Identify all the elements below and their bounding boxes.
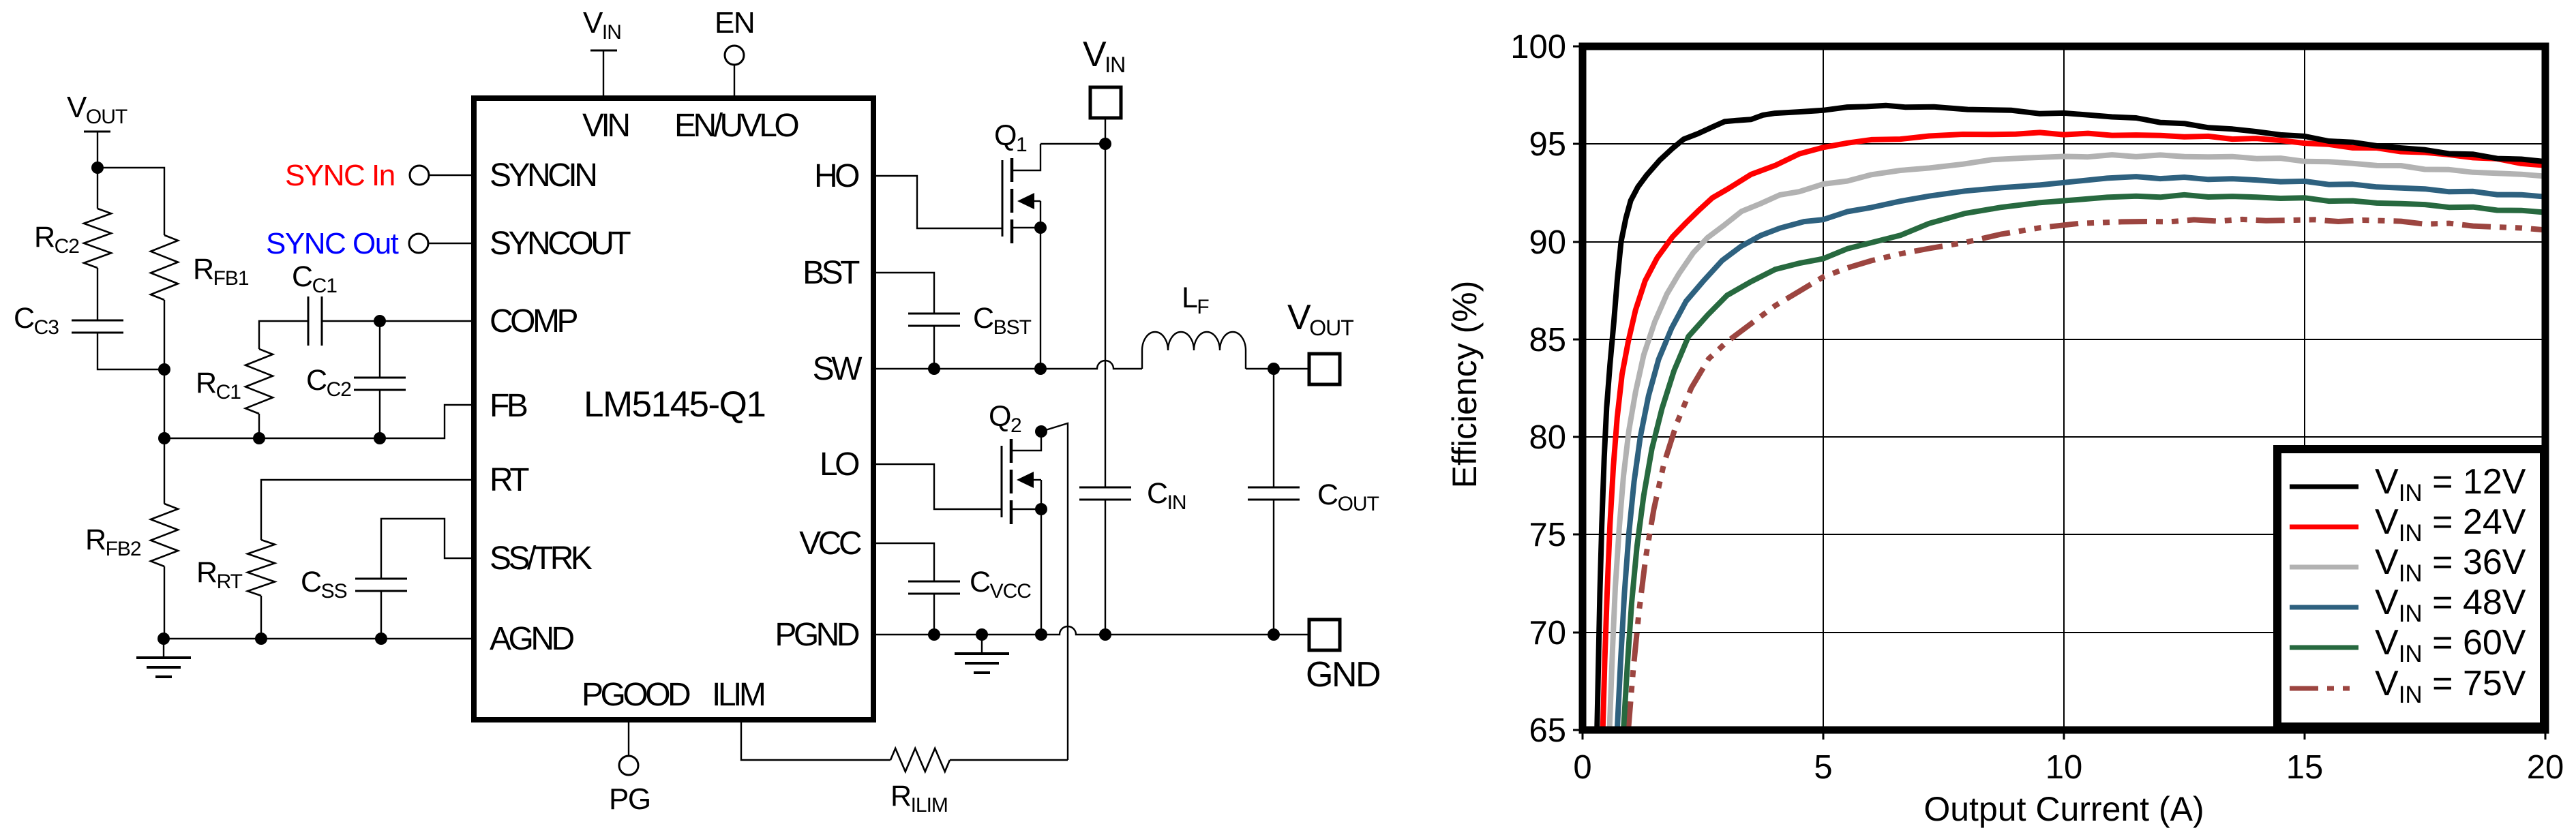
svg-text:VIN = 24V: VIN = 24V <box>2375 502 2526 547</box>
U1 pin label SYNCIN <box>490 157 595 194</box>
legend entry VIN = 12V <box>2290 462 2526 506</box>
terminal VOUT (square) <box>1287 298 1353 384</box>
junction SW at CBST <box>928 363 940 375</box>
legend entry VIN = 60V <box>2290 623 2526 667</box>
svg-text:VIN: VIN <box>582 108 628 144</box>
svg-text:RT: RT <box>490 462 529 498</box>
capacitor CC1 <box>292 260 337 346</box>
chart gridlines <box>1583 46 2545 730</box>
wire VCC pin to CVCC <box>873 543 934 581</box>
capacitor CSS <box>301 519 474 639</box>
capacitor CC2 <box>306 321 406 438</box>
resistor RFB1 <box>151 235 249 369</box>
junction SW at Q1 source <box>1034 363 1047 375</box>
svg-text:65: 65 <box>1529 712 1566 749</box>
junction RC2/RFB1 <box>158 363 170 376</box>
ground (power, below PGND row) <box>955 635 1009 673</box>
svg-text:EN/UVLO: EN/UVLO <box>674 108 798 144</box>
junction FB row at RC1 <box>253 432 265 444</box>
curve VIN=75V (dark red, dash-dot) <box>1628 219 2545 730</box>
U1 pin label SW <box>813 351 863 387</box>
curve VIN=36V (gray) <box>1610 155 2546 730</box>
svg-text:95: 95 <box>1529 126 1566 163</box>
U1 pin label SYNCOUT <box>490 226 631 262</box>
wire CC1 to COMP pin <box>322 320 474 322</box>
svg-text:VIN = 12V: VIN = 12V <box>2375 462 2526 506</box>
U1 pin label VIN <box>582 108 628 144</box>
junction FB row at RFB2 <box>158 432 170 444</box>
junction VOUT node <box>1268 363 1280 375</box>
chart y-axis title Efficiency (%) <box>1446 281 1484 489</box>
svg-text:85: 85 <box>1529 322 1566 359</box>
terminal SYNC Out (circle) <box>266 227 474 260</box>
svg-text:SYNC In: SYNC In <box>285 159 395 192</box>
legend entry VIN = 36V <box>2290 543 2526 587</box>
U1 pin label FB <box>490 388 527 424</box>
svg-text:SW: SW <box>813 351 863 387</box>
curve VIN=24V (red) <box>1603 132 2545 730</box>
svg-text:VIN = 75V: VIN = 75V <box>2375 664 2526 708</box>
junction Q1 source/body <box>1034 222 1047 234</box>
U1 pin label ILIM <box>712 677 764 713</box>
junction PGND at CIN <box>1099 628 1111 641</box>
chart axis ticks <box>1573 46 2545 740</box>
svg-text:BST: BST <box>803 255 860 291</box>
svg-text:VIN = 60V: VIN = 60V <box>2375 623 2526 667</box>
legend entry VIN = 24V <box>2290 502 2526 547</box>
U1 pin label PGOOD <box>582 677 690 713</box>
U1 pin label PGND <box>775 617 859 653</box>
capacitor CBST <box>908 302 1032 369</box>
op-amp U1 LM5145-Q1 controller box <box>474 98 873 720</box>
svg-text:FB: FB <box>490 388 527 424</box>
junction Q2 source/body <box>1035 503 1047 515</box>
terminal GND (square) <box>1306 620 1380 695</box>
wire LO pin to Q2 gate <box>873 464 1002 509</box>
U1 pin label LO <box>820 446 859 483</box>
U1 pin label COMP <box>490 303 577 339</box>
wire PGND row with hop over sense line <box>873 626 1309 635</box>
wire LF to VOUT terminal <box>1246 368 1309 369</box>
svg-text:HO: HO <box>814 158 859 194</box>
junction AGND at CSS <box>375 633 387 645</box>
resistor RRT <box>196 540 275 639</box>
svg-text:VIN = 48V: VIN = 48V <box>2375 583 2526 627</box>
resistor RILIM <box>890 748 1068 817</box>
terminal PG (circle, below U1) <box>609 720 650 816</box>
curve VIN=60V (green) <box>1623 195 2545 730</box>
U1 pin label EN/UVLO <box>674 108 798 144</box>
wire RT pin to RRT <box>261 480 474 540</box>
svg-text:SS/TRK: SS/TRK <box>490 541 593 577</box>
chart x-axis title Output Current (A) <box>1923 790 2204 828</box>
svg-text:GND: GND <box>1306 655 1380 695</box>
U1 pin label VCC <box>799 526 861 562</box>
ground (analog, below RFB2) <box>136 639 191 677</box>
inductor LF <box>1142 281 1246 369</box>
svg-text:15: 15 <box>2286 749 2324 786</box>
svg-text:SYNCOUT: SYNCOUT <box>490 226 631 262</box>
wire ILIM pin to RILIM <box>741 720 890 760</box>
net VIN supply stub (top of U1) <box>583 6 621 98</box>
wire VOUT node to RFB1 top <box>98 168 164 235</box>
legend entry VIN = 75V <box>2290 664 2526 708</box>
svg-text:VCC: VCC <box>799 526 861 562</box>
svg-text:0: 0 <box>1573 749 1591 786</box>
wire HO pin to Q1 gate <box>873 176 1002 228</box>
transistor Q2 (low-side NMOS) <box>989 400 1041 635</box>
wire VIN rail down to CIN <box>1105 144 1106 487</box>
legend entry VIN = 48V <box>2290 583 2526 627</box>
U1 pin label HO <box>814 158 859 194</box>
junction AGND at RRT <box>255 633 267 645</box>
svg-text:70: 70 <box>1529 615 1566 652</box>
junction AGND at RFB2 <box>158 633 170 645</box>
wire AGND row <box>164 638 474 639</box>
wire BST pin to CBST <box>873 273 934 314</box>
capacitor COUT <box>1248 478 1379 635</box>
junction COMP row at CC2 <box>374 315 386 327</box>
junction PGND at CVCC <box>928 628 940 641</box>
terminal EN (circle, top of U1) <box>715 6 754 98</box>
capacitor CVCC <box>908 566 1031 635</box>
U1 pin label RT <box>490 462 529 498</box>
U1 pin label AGND <box>490 621 574 657</box>
svg-text:COMP: COMP <box>490 303 577 339</box>
resistor RC1 <box>196 321 308 438</box>
U1 pin label BST <box>803 255 860 291</box>
resistor RC2 <box>34 168 111 320</box>
chart x-axis tick labels <box>1573 749 2564 786</box>
junction FB row at CC2 <box>374 432 386 444</box>
junction VIN node <box>1099 138 1111 150</box>
svg-text:75: 75 <box>1529 517 1566 553</box>
capacitor CC3 <box>14 302 123 339</box>
svg-text:PGND: PGND <box>775 617 859 653</box>
svg-text:5: 5 <box>1814 749 1832 786</box>
chart plot border <box>1583 46 2545 730</box>
svg-text:ILIM: ILIM <box>712 677 764 713</box>
curve VIN=48V (blue) <box>1617 177 2545 730</box>
U1 pin label SS/TRK <box>490 541 593 577</box>
transistor Q1 (high-side NMOS) <box>994 119 1040 369</box>
svg-text:100: 100 <box>1510 29 1566 65</box>
wire SW row with hop over VIN rail <box>873 361 1142 369</box>
chart y-axis tick labels <box>1510 29 1566 749</box>
capacitor CIN <box>1079 477 1186 635</box>
junction PGND at ground <box>976 628 988 641</box>
svg-text:SYNC Out: SYNC Out <box>266 227 399 260</box>
svg-text:20: 20 <box>2527 749 2564 786</box>
svg-text:LM5145-Q1: LM5145-Q1 <box>584 384 765 425</box>
svg-text:VIN = 36V: VIN = 36V <box>2375 543 2526 587</box>
svg-text:90: 90 <box>1529 224 1566 261</box>
wire VOUT rail down to COUT <box>1273 369 1274 487</box>
svg-text:80: 80 <box>1529 419 1566 456</box>
net VOUT supply rail (top-left) <box>67 91 128 168</box>
svg-text:AGND: AGND <box>490 621 574 657</box>
wire junction down to FB row <box>164 369 165 438</box>
svg-text:Efficiency (%): Efficiency (%) <box>1446 281 1484 489</box>
junction Q2 drain at SW rail <box>1035 425 1047 438</box>
svg-text:LO: LO <box>820 446 859 483</box>
junction VOUT node <box>91 162 104 174</box>
svg-text:PG: PG <box>609 782 650 816</box>
svg-text:Output Current (A): Output Current (A) <box>1923 790 2204 828</box>
svg-text:PGOOD: PGOOD <box>582 677 690 713</box>
terminal VIN (square) <box>1083 35 1125 144</box>
wire Q2 drain sense to RILIM (diagonal + vertical) <box>1041 423 1068 760</box>
svg-text:10: 10 <box>2046 749 2083 786</box>
wire CC3 bottom to junction <box>98 333 164 369</box>
svg-text:EN: EN <box>715 6 754 40</box>
chart legend box <box>2277 449 2544 727</box>
resistor RFB2 <box>85 438 178 639</box>
svg-text:SYNCIN: SYNCIN <box>490 157 595 194</box>
terminal SYNC In (circle) <box>285 159 474 192</box>
curve VIN=12V (black) <box>1597 106 2545 730</box>
junction PGND at COUT <box>1268 628 1280 641</box>
wire FB row to FB pin <box>164 405 474 438</box>
wire Q1 drain to VIN rail <box>1040 143 1105 144</box>
junction PGND at Q2 source <box>1035 628 1047 641</box>
